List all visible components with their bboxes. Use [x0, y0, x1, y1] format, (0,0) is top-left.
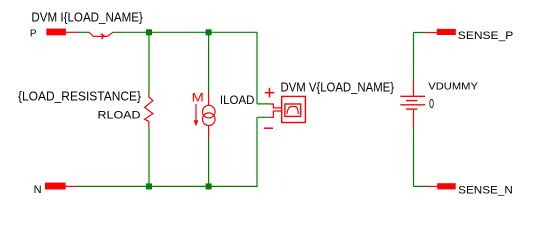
svg-text:P: P	[30, 29, 37, 40]
svg-text:M: M	[192, 91, 204, 104]
svg-text:SENSE_P: SENSE_P	[458, 30, 514, 42]
svg-text:ILOAD: ILOAD	[220, 93, 255, 107]
svg-text:0: 0	[429, 96, 434, 111]
svg-text:RLOAD: RLOAD	[98, 110, 141, 122]
svg-text:VDUMMY: VDUMMY	[428, 82, 478, 93]
svg-text:DVM I{LOAD_NAME}: DVM I{LOAD_NAME}	[31, 9, 143, 24]
svg-text:{LOAD_RESISTANCE}: {LOAD_RESISTANCE}	[18, 89, 142, 104]
svg-text:N: N	[34, 184, 42, 196]
svg-text:DVM V{LOAD_NAME}: DVM V{LOAD_NAME}	[281, 79, 395, 94]
svg-text:SENSE_N: SENSE_N	[458, 185, 513, 197]
